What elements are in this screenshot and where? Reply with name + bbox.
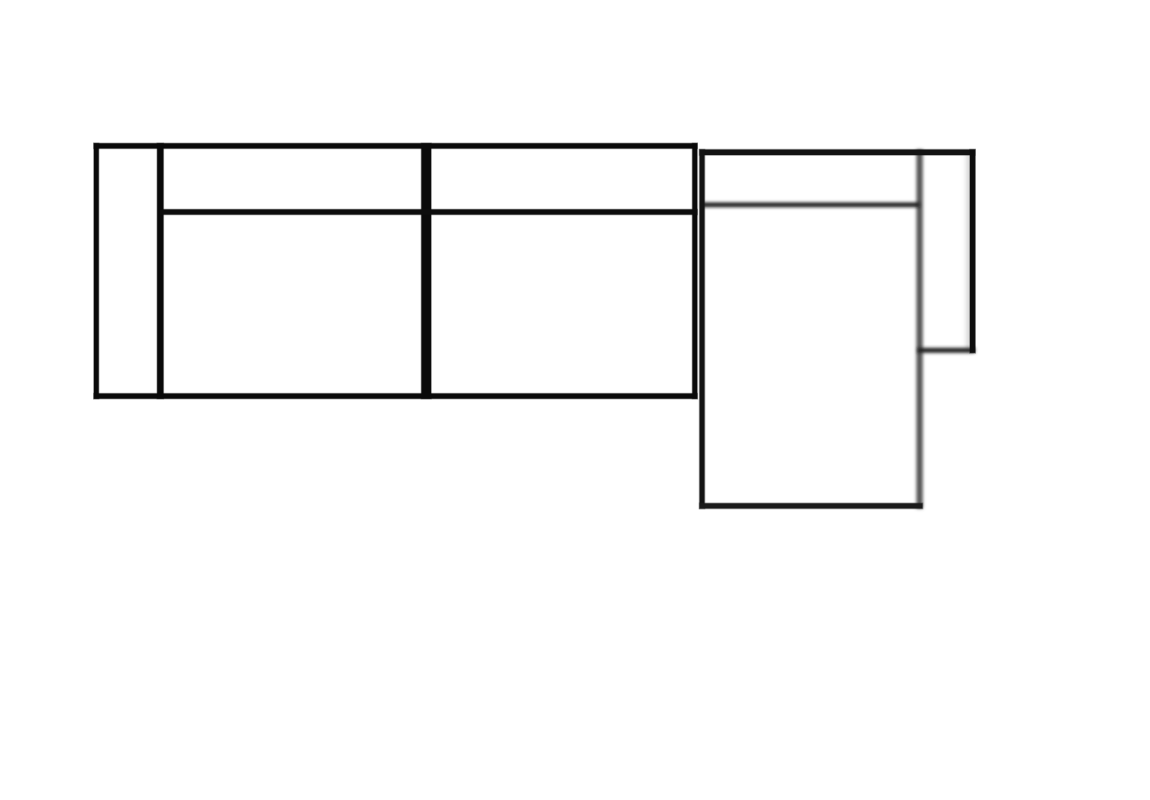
left armrest divider [157, 143, 163, 398]
chaise back cushion divider [702, 203, 920, 208]
middle seat divider [421, 143, 431, 398]
chaise left edge [700, 150, 705, 509]
chaise inner right edge [916, 150, 922, 509]
chaise bottom edge [700, 503, 923, 508]
chaise top edge [700, 150, 975, 155]
soft shading left of chaise armrest outer edge [964, 152, 971, 351]
back cushion divider (main section) [160, 209, 697, 214]
sofa main section: right outer edge [692, 143, 697, 398]
sofa main section: bottom outer edge [94, 394, 697, 399]
sofa main section: top outer edge [94, 143, 697, 148]
chaise right armrest bottom edge [918, 348, 975, 353]
sofa main section: left outer edge [94, 143, 99, 398]
chaise right armrest outer edge [970, 150, 975, 353]
